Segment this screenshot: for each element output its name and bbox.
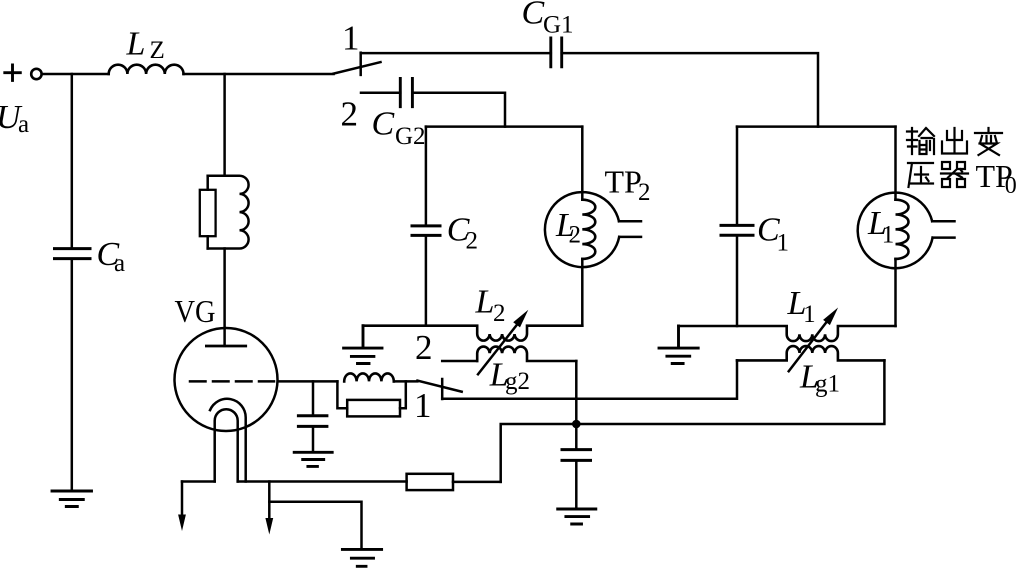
grid dashed line of VG bbox=[190, 380, 274, 383]
svg-text:G2: G2 bbox=[395, 123, 426, 150]
wire resistor to corner bbox=[453, 481, 501, 484]
svg-text:2: 2 bbox=[638, 179, 651, 206]
svg-text:1: 1 bbox=[882, 222, 895, 249]
capacitor CG1 bbox=[551, 38, 562, 67]
transformer TP2 circle bbox=[545, 192, 619, 267]
capacitor C1 bbox=[721, 225, 753, 235]
middle tank left vertical lower bbox=[425, 237, 428, 326]
ground below grid capacitor bbox=[294, 452, 332, 466]
wire contact1 to right bbox=[442, 360, 737, 398]
inductor L1 primary in TP0 bbox=[896, 200, 909, 259]
label CG2 bbox=[372, 106, 426, 151]
inductor L2 variable winding bbox=[363, 326, 582, 341]
svg-text:1: 1 bbox=[777, 230, 790, 257]
svg-text:1: 1 bbox=[803, 301, 816, 328]
wire node A down to Ca bbox=[71, 74, 74, 247]
wire tank top into TP0 bbox=[894, 127, 897, 200]
top switch blade bbox=[334, 62, 381, 74]
TP0 secondary terminal lower bbox=[933, 236, 955, 239]
grid switch blade bbox=[417, 381, 461, 392]
svg-text:TP: TP bbox=[605, 164, 642, 200]
grid wire out of tube bbox=[278, 380, 338, 383]
svg-text:2: 2 bbox=[466, 228, 479, 255]
filament left lead wire bbox=[182, 480, 215, 483]
svg-text:g1: g1 bbox=[815, 371, 840, 398]
terminal circle Ua input bbox=[31, 69, 41, 79]
label C1 bbox=[757, 212, 789, 257]
bypass capacitor at junction bbox=[562, 450, 591, 461]
wire Ca to ground bbox=[71, 260, 74, 490]
label TP0 output transformer bbox=[976, 158, 1017, 199]
inductor LZ bbox=[109, 65, 184, 74]
label LZ bbox=[126, 26, 165, 65]
ground right tank bbox=[659, 326, 698, 364]
grid bypass capacitor bbox=[298, 416, 327, 427]
capacitor C2 bbox=[412, 226, 440, 236]
filament second arrow bbox=[265, 482, 273, 535]
plus terminal symbol bbox=[5, 65, 20, 80]
filament left arrow bbox=[178, 482, 186, 532]
wire cap to ground bbox=[312, 428, 315, 452]
wire TP2 down to tank bottom bbox=[581, 259, 584, 326]
anode choke coil (RFC) bbox=[208, 176, 249, 249]
svg-text:G1: G1 bbox=[543, 11, 574, 38]
wire grid node to bypass cap bbox=[312, 381, 315, 414]
grid leak resistor bbox=[337, 381, 405, 416]
inductor L1 variable winding bbox=[679, 326, 896, 341]
label CG1 bbox=[522, 0, 574, 38]
label 2 grid switch bbox=[415, 328, 433, 367]
cathode filament inner U of VG bbox=[215, 409, 238, 481]
resistor parallel with RFC bbox=[200, 190, 216, 236]
wire node B down to RFC bbox=[223, 74, 226, 176]
label 1 top switch bbox=[342, 18, 360, 57]
label L1 inside TP0 bbox=[867, 205, 894, 249]
svg-text:a: a bbox=[114, 250, 125, 277]
right tank left vertical upper bbox=[736, 127, 739, 224]
label Ua bbox=[0, 99, 29, 138]
TP0 secondary terminal upper bbox=[932, 220, 954, 223]
filament right lead wire bbox=[238, 480, 407, 483]
svg-text:a: a bbox=[18, 111, 29, 138]
chinese glyph qi bbox=[941, 162, 968, 187]
label 2 top switch bbox=[341, 95, 359, 134]
svg-text:L: L bbox=[126, 26, 146, 63]
svg-text:1: 1 bbox=[414, 386, 432, 425]
label L2 inside TP2 bbox=[555, 207, 581, 249]
wire tank top into TP2 bbox=[581, 127, 584, 200]
capacitor Ca bbox=[55, 249, 91, 259]
wire bypass cap to ground bbox=[575, 462, 578, 509]
transformer TP0 circle bbox=[858, 193, 933, 269]
cathode outer arc of VG bbox=[210, 399, 246, 482]
junction dot node K bbox=[572, 420, 581, 429]
svg-text:L: L bbox=[475, 283, 495, 320]
svg-text:C: C bbox=[522, 0, 545, 31]
svg-text:Z: Z bbox=[150, 37, 165, 64]
wire RFC to anode bbox=[223, 249, 226, 346]
right tank left vertical lower bbox=[736, 237, 739, 326]
label Lg1 bbox=[799, 358, 840, 397]
svg-text:2: 2 bbox=[341, 95, 359, 134]
ground middle tank bbox=[344, 326, 382, 364]
anode plate of VG bbox=[206, 345, 245, 348]
wire switch contact2 to CG2 bbox=[361, 92, 400, 95]
wire Lz to switch pivot bbox=[184, 73, 334, 76]
chinese glyph chu bbox=[942, 128, 967, 154]
right tank top wire bbox=[737, 125, 896, 128]
TP2 secondary terminal lower bbox=[619, 236, 641, 239]
svg-text:C: C bbox=[372, 106, 395, 143]
variable coupling arrow L2 bbox=[478, 310, 528, 375]
inductor Lg2 winding bbox=[477, 347, 576, 361]
inductor L2 primary in TP2 bbox=[582, 200, 595, 259]
svg-text:1: 1 bbox=[342, 18, 360, 57]
wire filament branch to ground bbox=[269, 502, 361, 549]
ground below bypass capacitor bbox=[558, 509, 596, 524]
top switch contact tick bbox=[359, 53, 362, 75]
chinese glyph shu bbox=[907, 128, 934, 154]
wire cathode resistor to Lg1 bbox=[501, 360, 885, 482]
TP2 secondary terminal upper bbox=[619, 220, 641, 223]
wire junction to bypass cap bbox=[575, 424, 578, 448]
chinese glyph bian bbox=[975, 128, 1002, 155]
capacitor CG2 bbox=[400, 78, 412, 106]
wire contact2 to Lg2 bbox=[442, 360, 477, 363]
grid leak inductor bbox=[344, 373, 394, 381]
wire CG2 to tank bbox=[412, 93, 505, 127]
svg-text:0: 0 bbox=[1005, 173, 1017, 199]
ground below filament bbox=[342, 549, 381, 566]
tube VG envelope circle bbox=[175, 328, 278, 431]
middle tank left vertical upper bbox=[425, 127, 428, 225]
label Ca bbox=[97, 236, 126, 277]
label TP2 bbox=[605, 164, 651, 207]
svg-text:g2: g2 bbox=[505, 368, 530, 395]
wire contact1 to CG1 bbox=[361, 52, 551, 55]
label L2 variable bbox=[475, 283, 506, 327]
wire CG1 to right tank bbox=[562, 53, 818, 127]
svg-text:VG: VG bbox=[175, 293, 216, 329]
wire TP0 down to tank bottom bbox=[894, 259, 897, 326]
variable coupling arrow L1 bbox=[789, 308, 838, 372]
middle tank top wire bbox=[426, 125, 582, 128]
label 1 grid switch bbox=[414, 386, 432, 425]
cathode resistor bbox=[407, 474, 453, 490]
wire to grid switch pivot bbox=[394, 380, 418, 383]
wire Lg2 down to junction bbox=[575, 361, 578, 424]
ground below Ca bbox=[52, 491, 92, 507]
svg-text:2: 2 bbox=[569, 222, 582, 249]
grid switch contact tick bbox=[441, 379, 444, 399]
label C2 bbox=[447, 212, 478, 255]
label L1 variable bbox=[787, 285, 816, 328]
svg-text:2: 2 bbox=[493, 300, 506, 327]
wire terminal to Lz bbox=[42, 73, 108, 76]
svg-text:2: 2 bbox=[415, 328, 433, 367]
inductor Lg1 winding bbox=[737, 346, 884, 360]
label Lg2 bbox=[489, 357, 530, 396]
chinese glyph ya bbox=[908, 163, 933, 187]
label VG bbox=[175, 293, 216, 329]
